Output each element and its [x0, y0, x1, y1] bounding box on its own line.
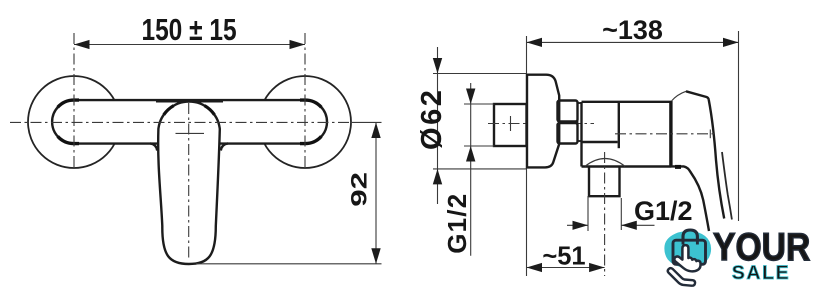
- shopping bag body: [673, 240, 706, 264]
- handle horn curve: [672, 91, 687, 101]
- arrowhead right of 150 dim: [290, 40, 306, 49]
- lever handle front: [158, 102, 220, 264]
- arrowhead up at connector bottom: [466, 146, 475, 162]
- thick tangent marks on right bar cap: [300, 100, 321, 144]
- arrowhead right of 51 dim: [589, 263, 605, 272]
- thick tangent marks at dome shoulders: [164, 106, 215, 115]
- faucet body bar: [52, 100, 327, 144]
- wall connector G1/2 rect: [494, 104, 527, 146]
- bag handle leg marks: [683, 241, 697, 245]
- horizontal centerline through escutcheons: [10, 121, 352, 123]
- vertical centerline left circle: [73, 33, 75, 171]
- body internal horizontal edge: [582, 141, 618, 143]
- arrowhead left-pointing at outlet right: [621, 221, 637, 230]
- arrowhead left of 150 dim: [74, 40, 90, 49]
- handle top edge: [686, 91, 709, 99]
- arrowhead down at connector top: [466, 89, 475, 105]
- handle pivot tick: [709, 130, 711, 139]
- extension line bottom for dia62: [433, 168, 527, 170]
- body internal vertical edge: [618, 102, 620, 148]
- handle pivot tick: [176, 132, 205, 134]
- arrowhead left of 138 dim: [527, 38, 543, 47]
- extension line bottom for left G12: [464, 145, 494, 147]
- shopping bag handle: [683, 230, 697, 242]
- arrowhead left of 51 dim: [527, 263, 543, 272]
- hand fist and finger: [674, 245, 700, 271]
- dimension line ~51: [527, 267, 605, 269]
- body top edge: [582, 101, 672, 103]
- hex nut upper: [558, 101, 578, 122]
- right fillet handle to bar: [221, 143, 228, 150]
- connector centerline tick: [510, 116, 512, 131]
- right escutcheon circle: [259, 76, 351, 168]
- arrowhead up at disc bottom: [433, 169, 442, 185]
- svg-text:~138: ~138: [602, 15, 663, 45]
- body bottom edge: [582, 165, 672, 167]
- extension line right vertical for 138 dim: [738, 31, 740, 221]
- svg-text:SALE: SALE: [732, 262, 791, 284]
- svg-text:150 ± 15: 150 ± 15: [141, 12, 236, 46]
- left escutcheon circle: [28, 76, 120, 168]
- hand wrist arm: [668, 268, 695, 286]
- underside notch: [675, 165, 681, 169]
- handle tail second line: [722, 152, 732, 220]
- outlet pipe: [589, 167, 620, 197]
- arrowhead right of 138 dim: [723, 38, 739, 47]
- arrowhead top of 92 dim: [371, 123, 380, 139]
- svg-text:G1/2: G1/2: [634, 196, 693, 226]
- outlet G12 left arrow line: [567, 224, 588, 226]
- vertical centerline handle: [188, 103, 190, 258]
- outlet centerline: [604, 152, 606, 276]
- extension line top for dia62: [433, 73, 527, 75]
- extension line bottom for 92 dim: [196, 263, 382, 265]
- body left edge: [580, 102, 582, 167]
- dimension line 150 +/- 15: [74, 44, 305, 46]
- washer ring: [578, 103, 582, 141]
- left fillet handle to bar: [150, 143, 157, 150]
- svg-text:Ø62: Ø62: [416, 88, 448, 150]
- svg-text:~51: ~51: [542, 242, 585, 270]
- extension line left vertical (138 dim / wall line): [526, 36, 528, 276]
- escutcheon disc side: [527, 75, 559, 168]
- extension line right for outlet G12: [620, 198, 622, 230]
- handle underside: [671, 166, 709, 231]
- arrowhead bottom of 92 dim: [371, 248, 380, 263]
- handle axis centerline: [615, 133, 714, 135]
- extension line top for 92 dim: [352, 121, 382, 123]
- extension line left for outlet G12: [587, 196, 589, 231]
- dimension line 92: [375, 123, 377, 264]
- arrowhead right-pointing at outlet left: [573, 221, 589, 230]
- handle outer edge: [709, 100, 725, 219]
- outlet G12 right arrow line: [621, 224, 654, 226]
- body right edge: [669, 101, 672, 167]
- hex nut lower: [558, 123, 578, 144]
- vertical centerline right circle: [304, 33, 306, 171]
- thick tangent marks on left bar cap: [58, 100, 79, 144]
- extension line top for left G12: [464, 103, 494, 105]
- dimension line dia62: [437, 47, 439, 204]
- bar top edge over handle dome: [156, 100, 223, 102]
- connector centerline: [488, 123, 594, 125]
- outlet dome: [585, 159, 625, 167]
- arrowhead down at disc top: [433, 58, 442, 74]
- dimension line ~138: [527, 41, 739, 43]
- svg-text:92: 92: [346, 172, 371, 207]
- dimension line left G12: [470, 83, 472, 256]
- logo teal blob: [664, 231, 711, 268]
- svg-text:G1/2: G1/2: [442, 193, 472, 254]
